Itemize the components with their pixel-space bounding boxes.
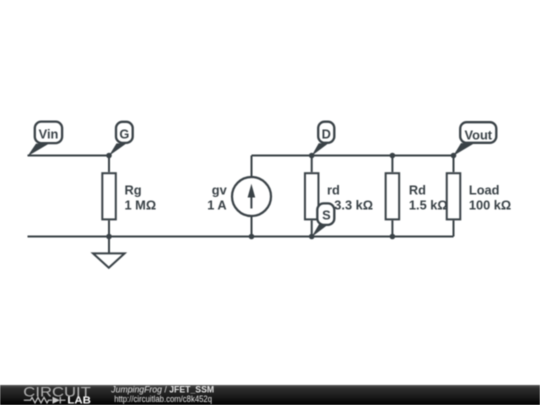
svg-text:Vout: Vout [465,127,493,142]
svg-text:JumpingFrog / JFET_SSM: JumpingFrog / JFET_SSM [110,384,214,394]
svg-text:1 A: 1 A [207,198,226,213]
svg-text:Rg: Rg [125,182,142,197]
svg-text:LAB: LAB [67,395,91,405]
svg-text:G: G [119,127,129,142]
svg-text:100 kΩ: 100 kΩ [469,198,511,213]
svg-text:http://circuitlab.com/c8k452q: http://circuitlab.com/c8k452q [114,394,212,404]
svg-text:1.5 kΩ: 1.5 kΩ [409,198,448,213]
svg-text:Vin: Vin [39,127,59,142]
svg-text:D: D [322,127,331,142]
svg-text:gv: gv [212,182,228,197]
svg-text:Rd: Rd [409,182,426,197]
svg-text:1 MΩ: 1 MΩ [125,198,157,213]
svg-text:rd: rd [327,182,340,197]
svg-text:Load: Load [469,182,500,197]
svg-text:S: S [322,208,331,223]
svg-text:3.3 kΩ: 3.3 kΩ [334,198,373,213]
